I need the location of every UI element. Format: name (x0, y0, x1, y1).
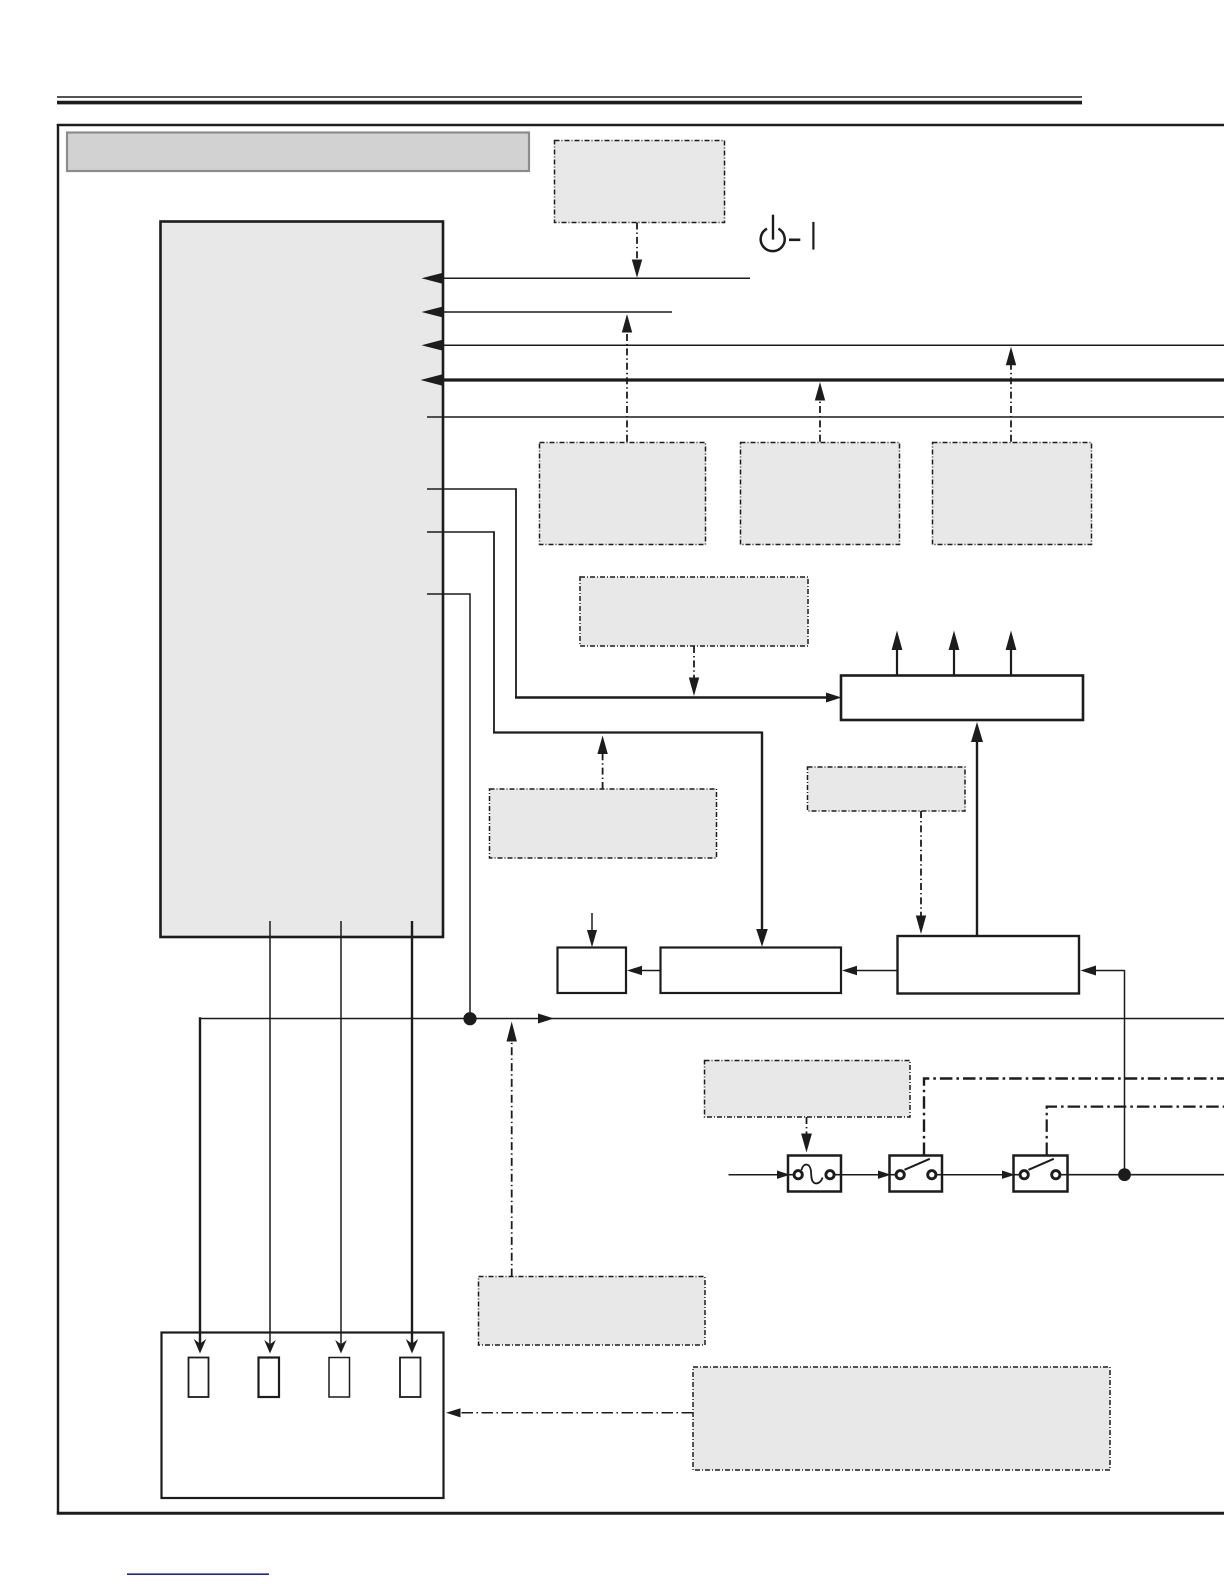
arrow power box to long box (842, 966, 897, 976)
CRT socket connector box (162, 1333, 444, 1499)
title bar (67, 133, 529, 172)
pin 3 (329, 1358, 350, 1398)
main microcontroller block (161, 222, 444, 938)
bus junction dot (463, 1012, 476, 1025)
dash-dot arrow from info box left to connector (446, 1408, 693, 1417)
wire C: block down to main AC bus (427, 594, 470, 1019)
standby transformer box (dash-dot) (490, 789, 717, 858)
wire5 plain line (427, 416, 1224, 418)
AC junction dot (1118, 1168, 1131, 1181)
box2 (dash-dot) (741, 443, 900, 545)
arrow AC junction to power box right side (1081, 966, 1125, 976)
pin 2 (259, 1358, 280, 1398)
dash-dot arrow from box2 up to wire4 (815, 382, 825, 442)
dash-dot arrow from relay coil down to power box (916, 811, 926, 934)
fuse F1 (788, 1156, 841, 1192)
AC line after SW2 to right edge (1068, 1174, 1224, 1176)
regulator output arrow 1 (892, 631, 903, 676)
dash-dot control line from SW1 up and right (924, 1079, 1224, 1156)
dash-dot arrow from degauss box down to fuse (801, 1117, 812, 1153)
dash-dot control line from SW2 up and right (1047, 1107, 1224, 1155)
wire SW1 to switch SW2 (942, 1171, 1015, 1179)
wire3 to block from right (422, 340, 1224, 351)
arrow long box to small box (627, 966, 660, 976)
wire4 thick bus to block (421, 374, 1224, 386)
relay coil box (dash-dot) (808, 767, 966, 811)
pin 1 (189, 1358, 209, 1398)
wire junction up to power box (1124, 970, 1126, 1175)
box1 keyboard (dash-dot) (540, 443, 706, 545)
switch SW2 (relay) (1014, 1156, 1068, 1192)
wire block down to connector pin4 (406, 921, 418, 1354)
main power supply box (898, 936, 1080, 994)
dash-dot arrow from pump box up to bus (507, 1022, 517, 1277)
power symbol (761, 215, 814, 251)
pin 4 (400, 1358, 421, 1398)
regulator output box (841, 676, 1083, 721)
regulator output arrow 2 (949, 631, 960, 676)
floating arrow into small box top (587, 913, 597, 947)
regulator output arrow 3 (1006, 631, 1017, 676)
wire remote-in to block (wire1) (422, 273, 751, 284)
arrow power box up to regulator (971, 722, 983, 936)
wire A: block to regulator (relay control) (427, 488, 842, 702)
box3 (dash-dot) (933, 443, 1092, 545)
wire B: block to sub power box (427, 531, 768, 947)
rectifier long box (661, 948, 842, 994)
degauss / sub box small (558, 948, 627, 994)
header double rule (57, 97, 1082, 103)
wire bus corner down to connector pin1 (194, 1017, 206, 1353)
AC input line (729, 1171, 791, 1179)
dash-dot arrow from keyboard box1 up to wire2 (622, 314, 632, 442)
wire block down to connector pin2 (264, 921, 276, 1354)
bottom info box (dash-dot) (693, 1367, 1110, 1470)
dash-dot arrow from standby box up to wire B (597, 736, 607, 790)
dash-dot arrow from box3 up to wire3 (1006, 347, 1016, 442)
dash-dot arrow from remote sensor down to wire1 (632, 223, 642, 278)
dash-dot arrow from relay drive down to relay wire (689, 646, 699, 696)
wire fuse to switch SW1 (841, 1171, 891, 1179)
main bus horizontal line (200, 1018, 1224, 1020)
footer hyperlink rule (127, 1573, 269, 1575)
relay drive box (dash-dot) (580, 577, 808, 646)
switch SW1 (main power) (890, 1156, 943, 1192)
wire block down to connector pin3 (335, 921, 347, 1354)
wire key-in to block (wire2) (422, 307, 673, 318)
remote sensor box (dash-dot) (555, 141, 725, 223)
heater pump box (dash-dot) (479, 1277, 706, 1346)
bus flow arrow (538, 1014, 554, 1024)
degauss coil box above fuse (dash-dot) (705, 1061, 911, 1118)
